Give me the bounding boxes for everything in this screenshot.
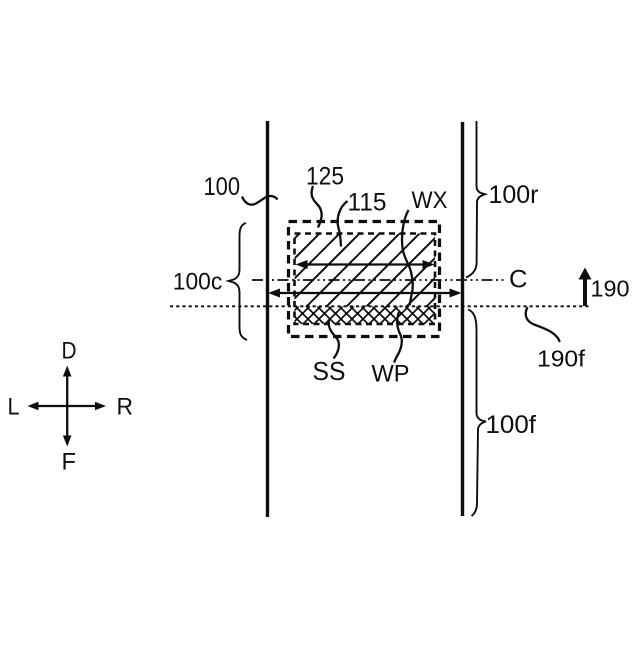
svg-text:100f: 100f bbox=[486, 411, 537, 439]
svg-text:190: 190 bbox=[591, 276, 630, 302]
svg-text:L: L bbox=[8, 394, 20, 421]
svg-text:100: 100 bbox=[204, 173, 241, 201]
svg-text:SS: SS bbox=[313, 356, 346, 386]
svg-text:125: 125 bbox=[306, 163, 344, 191]
svg-text:D: D bbox=[62, 338, 77, 365]
svg-text:F: F bbox=[62, 449, 77, 476]
svg-text:R: R bbox=[117, 394, 134, 421]
svg-text:WP: WP bbox=[372, 360, 410, 387]
svg-text:C: C bbox=[509, 266, 528, 294]
svg-text:190f: 190f bbox=[537, 346, 586, 372]
svg-text:115: 115 bbox=[348, 189, 387, 217]
svg-text:100c: 100c bbox=[173, 269, 223, 296]
svg-text:100r: 100r bbox=[489, 181, 539, 209]
svg-text:WX: WX bbox=[412, 187, 448, 214]
